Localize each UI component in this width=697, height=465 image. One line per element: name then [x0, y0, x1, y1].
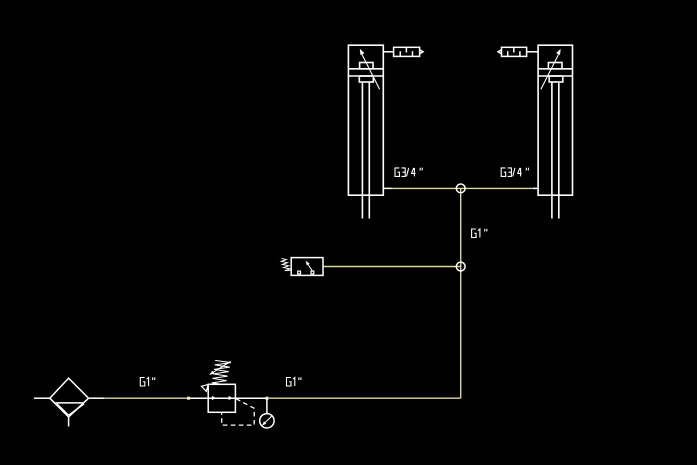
- cylinder A cushion adjustment arrow: [360, 49, 380, 90]
- label G3/4" (right port): [501, 168, 528, 177]
- filter/water separator F1 body: [50, 378, 89, 417]
- wire: main supply line left segment (yellow): [104, 397, 189, 399]
- node: junction dot at gauge tap: [265, 397, 268, 400]
- silencer S1 (right of cylinder A): [394, 47, 423, 56]
- label G1" (riser): [472, 229, 487, 238]
- regulator R1 pilot line (dashed): [222, 399, 255, 425]
- label G3/4" (left port): [395, 168, 422, 177]
- silencer S2 connector: [527, 51, 539, 53]
- regulator R1 relief vent triangle: [201, 384, 208, 391]
- regulator R1 flow arrow 2: [229, 396, 233, 400]
- cylinder B (right) body: [538, 45, 572, 195]
- wire: inlet stub at far left (white): [34, 397, 50, 399]
- wire: regulator through-line (white): [189, 397, 267, 399]
- valve V1 spring: [281, 258, 291, 270]
- valve V1 port square 1: [298, 271, 301, 274]
- regulator R1 spring: [212, 360, 231, 384]
- valve V1 internal arrow: [306, 261, 313, 271]
- wire: branch to pressure switch valve (yellow): [323, 266, 461, 268]
- wire: main supply line right segment to riser (yellow): [267, 397, 461, 399]
- label G1" (regulator outlet): [287, 377, 302, 386]
- regulator R1 flow arrow 1: [212, 396, 216, 400]
- cylinder A (left) body: [348, 45, 383, 195]
- cylinder B piston rod: [552, 82, 559, 219]
- wire: cylinder B port stub (white): [533, 187, 538, 189]
- cylinder A piston rod: [362, 82, 369, 219]
- wire: vertical riser G1 (yellow): [460, 188, 462, 398]
- gauge G1 needle: [262, 416, 272, 426]
- pressure switch valve V1 body: [291, 258, 323, 276]
- pressure gauge G1: [260, 414, 274, 428]
- pressure regulator R1 body: [208, 384, 235, 412]
- silencer S2 (left of cylinder B): [498, 47, 526, 56]
- node: junction circle upper (manifold T): [456, 184, 465, 193]
- node: junction circle lower (branch T): [456, 262, 465, 271]
- filter F1 drain stub: [68, 417, 70, 427]
- gauge G1 tap line: [266, 398, 268, 413]
- wire: filter outlet stub (white): [89, 397, 104, 399]
- wire: cylinder A port stub (white): [383, 187, 391, 189]
- valve V1 port square 2: [311, 271, 314, 274]
- wire: top manifold line between cylinders (yellow): [392, 187, 533, 189]
- silencer S1 connector: [383, 51, 393, 53]
- cylinder B cushion adjustment arrow: [541, 49, 561, 90]
- node: junction dot at regulator inlet: [187, 397, 190, 400]
- label G1" (filter outlet): [140, 377, 155, 386]
- regulator R1 adjustment arrow: [209, 362, 230, 375]
